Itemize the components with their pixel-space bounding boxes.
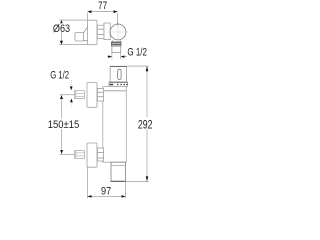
svg-text:G 1/2: G 1/2 <box>127 46 147 58</box>
svg-text:150±15: 150±15 <box>48 119 80 131</box>
svg-text:Ø63: Ø63 <box>53 23 70 35</box>
svg-text:77: 77 <box>98 0 107 12</box>
svg-text:G 1/2: G 1/2 <box>50 70 69 82</box>
svg-text:97: 97 <box>101 185 111 197</box>
svg-text:292: 292 <box>138 118 153 132</box>
